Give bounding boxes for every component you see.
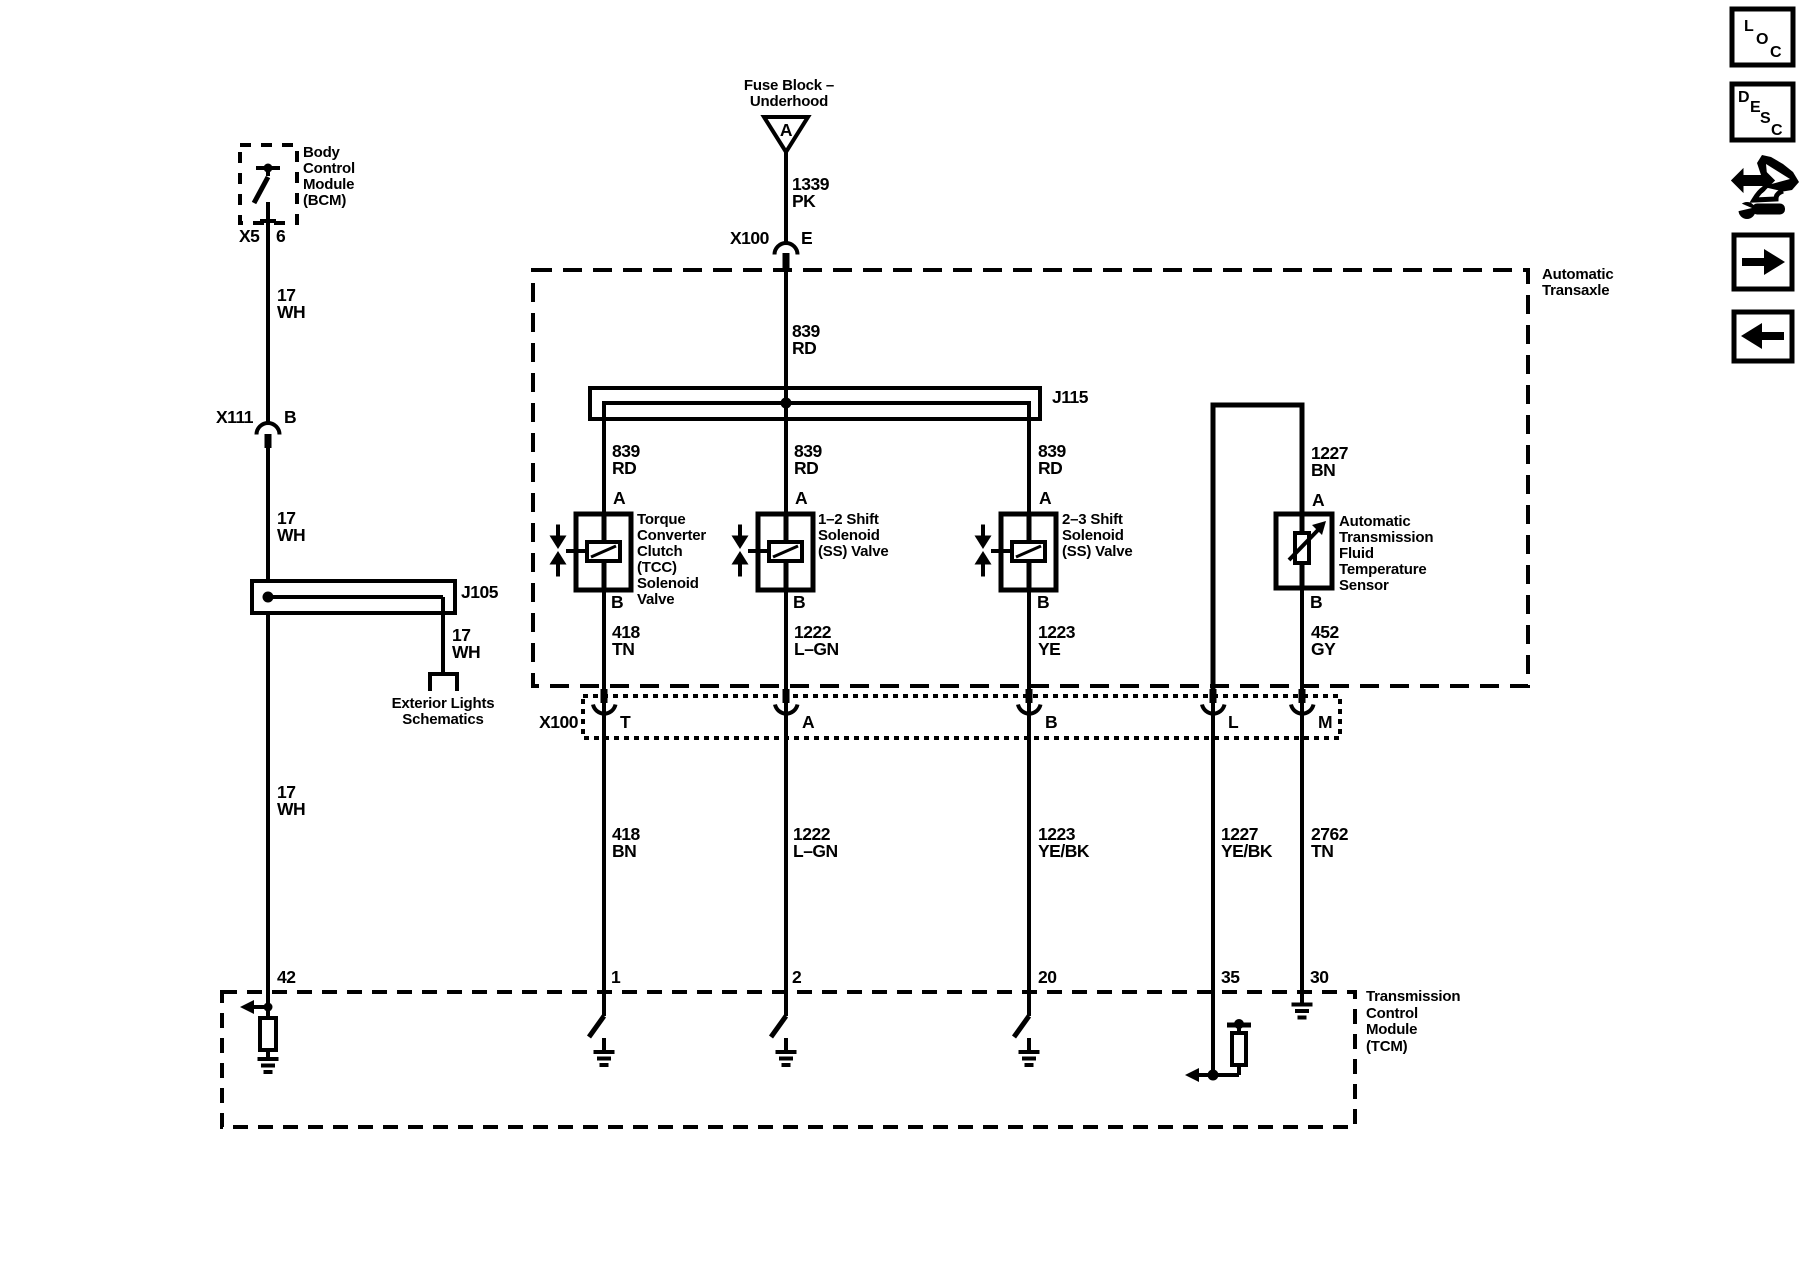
- svg-text:WH: WH: [452, 642, 480, 662]
- wire label 839 RD: [792, 321, 820, 358]
- svg-text:RD: RD: [612, 458, 636, 478]
- wire label 839 RD: [612, 441, 640, 478]
- svg-text:YE/BK: YE/BK: [1221, 841, 1273, 861]
- wire label 1227 BN: [1311, 443, 1348, 480]
- TCM pin 42 signal arrow: [240, 1000, 273, 1014]
- icon schematic navigation (arrows and wrench): [1733, 155, 1799, 219]
- svg-text:Torque: Torque: [637, 511, 686, 528]
- label 1-2 shift solenoid: [818, 511, 889, 560]
- ground TCM pin 30: [1292, 1005, 1313, 1018]
- wire label 1223 YE/BK: [1038, 824, 1090, 861]
- svg-text:J115: J115: [1052, 387, 1089, 407]
- wire triangle to X100 E: [784, 152, 788, 243]
- wire X100 B to TCM pin 20: [1027, 702, 1031, 1016]
- pin labels X5 6: [239, 226, 286, 246]
- ground TCM pin 42: [258, 1059, 279, 1072]
- wire TCC B to X100 T: [602, 590, 606, 689]
- svg-text:J105: J105: [461, 582, 499, 602]
- svg-text:C: C: [1771, 122, 1783, 139]
- icon forward arrow button: [1734, 235, 1792, 289]
- resistor R2 pull-up: [1227, 1019, 1251, 1075]
- wire label 17 WH: [277, 508, 305, 545]
- svg-text:B: B: [1037, 592, 1049, 612]
- wire label 452 GY: [1311, 622, 1339, 659]
- splice J105: [252, 581, 455, 613]
- svg-text:D: D: [1738, 89, 1750, 106]
- ground TCM pin 1: [594, 1052, 615, 1065]
- wire label 839 RD: [1038, 441, 1066, 478]
- wire resistor to ground: [266, 1050, 270, 1059]
- wire J115 to 1-2 shift solenoid: [784, 403, 788, 514]
- connector X100 pin M: [1291, 689, 1314, 714]
- wire label 17 WH: [277, 285, 305, 322]
- Automatic Transaxle dashed box: [533, 270, 1528, 686]
- X100 connector row dashed box: [583, 696, 1340, 738]
- svg-text:Module: Module: [303, 176, 354, 193]
- svg-text:20: 20: [1038, 967, 1057, 987]
- svg-text:Solenoid: Solenoid: [818, 527, 880, 544]
- icon back arrow button: [1734, 312, 1792, 361]
- svg-text:1: 1: [611, 967, 621, 987]
- connector X100 pin E: [775, 243, 798, 269]
- svg-text:PK: PK: [792, 191, 816, 211]
- svg-text:M: M: [1318, 712, 1332, 732]
- svg-text:TN: TN: [1311, 841, 1333, 861]
- svg-text:WH: WH: [277, 799, 305, 819]
- wire J105 branch down: [441, 597, 445, 673]
- svg-text:C: C: [1770, 44, 1782, 61]
- svg-text:Clutch: Clutch: [637, 543, 683, 560]
- connector X100 pin A: [775, 689, 798, 714]
- svg-text:L–GN: L–GN: [794, 639, 839, 659]
- svg-text:YE/BK: YE/BK: [1038, 841, 1090, 861]
- wire X100 E to J115: [784, 269, 788, 403]
- svg-text:L–GN: L–GN: [793, 841, 838, 861]
- Fuse Block - Underhood label: [744, 77, 834, 110]
- svg-text:B: B: [1045, 712, 1057, 732]
- connector X100 pin L: [1202, 689, 1225, 714]
- svg-text:Body: Body: [303, 144, 341, 161]
- svg-text:L: L: [1228, 712, 1239, 732]
- wire label 418 TN: [612, 622, 640, 659]
- svg-text:BN: BN: [612, 841, 636, 861]
- svg-text:WH: WH: [277, 525, 305, 545]
- svg-text:E: E: [801, 228, 812, 248]
- wire X100 A to TCM pin 2: [784, 702, 788, 1016]
- BCM label: [303, 144, 355, 209]
- svg-text:A: A: [795, 488, 808, 508]
- svg-text:X5: X5: [239, 226, 260, 246]
- icon LOC button: [1732, 9, 1793, 65]
- svg-text:2: 2: [792, 967, 802, 987]
- wire label 418 BN: [612, 824, 640, 861]
- svg-text:Schematics: Schematics: [402, 711, 483, 728]
- svg-text:A: A: [1039, 488, 1052, 508]
- wire label 1339 PK: [792, 174, 830, 211]
- svg-text:Control: Control: [303, 160, 355, 177]
- svg-text:Control: Control: [1366, 1005, 1418, 1022]
- wire X100 M to TCM pin 30: [1300, 702, 1304, 1004]
- svg-text:BN: BN: [1311, 460, 1335, 480]
- label ATF temperature sensor: [1339, 513, 1433, 594]
- TCM switch pin 1: [589, 1016, 604, 1051]
- svg-text:35: 35: [1221, 967, 1240, 987]
- svg-text:Solenoid: Solenoid: [637, 575, 699, 592]
- svg-text:(SS) Valve: (SS) Valve: [818, 543, 889, 560]
- TCM switch pin 20: [1014, 1016, 1029, 1051]
- svg-text:42: 42: [277, 967, 296, 987]
- label Exterior Lights Schematics: [392, 695, 495, 728]
- svg-text:YE: YE: [1038, 639, 1060, 659]
- Body Control Module (BCM) dashed box: [240, 145, 297, 223]
- wire BCM to X111: [266, 202, 270, 423]
- svg-text:B: B: [284, 407, 296, 427]
- svg-text:Automatic: Automatic: [1542, 266, 1614, 283]
- label Automatic Transaxle: [1542, 266, 1614, 299]
- svg-text:L: L: [1744, 18, 1754, 35]
- TCC solenoid valve U1: [550, 514, 632, 590]
- svg-text:6: 6: [276, 226, 286, 246]
- ATF temperature sensor RT1: [1276, 514, 1332, 588]
- svg-text:X100: X100: [730, 228, 770, 248]
- svg-text:(SS) Valve: (SS) Valve: [1062, 543, 1133, 560]
- wire J115 to TCC solenoid: [602, 403, 606, 514]
- wire label 1222 L-GN: [793, 824, 838, 861]
- svg-text:A: A: [802, 712, 815, 732]
- Transmission Control Module dashed box: [222, 992, 1355, 1127]
- fuse block triangle connector A: [764, 117, 808, 152]
- svg-text:Module: Module: [1366, 1021, 1417, 1038]
- svg-text:Exterior Lights: Exterior Lights: [392, 695, 495, 712]
- wire X111 to J105: [266, 448, 270, 581]
- wire X100 T to TCM pin 1: [602, 702, 606, 1016]
- TCM pin 35 node and signal arrow: [1185, 1068, 1239, 1082]
- pin B labels of solenoids: [611, 592, 1049, 612]
- svg-text:Automatic: Automatic: [1339, 513, 1411, 530]
- svg-text:Sensor: Sensor: [1339, 577, 1389, 594]
- svg-text:B: B: [611, 592, 623, 612]
- ground TCM pin 2: [776, 1052, 797, 1065]
- svg-text:Fuse Block –: Fuse Block –: [744, 77, 834, 94]
- svg-text:Transmission: Transmission: [1366, 988, 1460, 1005]
- svg-text:(TCC): (TCC): [637, 559, 677, 576]
- connector labels X111 B: [216, 407, 296, 427]
- wire label 1223 YE: [1038, 622, 1076, 659]
- svg-text:RD: RD: [792, 338, 816, 358]
- svg-text:RD: RD: [794, 458, 818, 478]
- connector X111 pin B: [257, 423, 280, 448]
- svg-text:Valve: Valve: [637, 591, 674, 608]
- node bar sensor feed: [1213, 405, 1302, 689]
- svg-text:Transmission: Transmission: [1339, 529, 1433, 546]
- wire label 1227 YE/BK: [1221, 824, 1273, 861]
- pin tick X5/6: [260, 219, 276, 223]
- svg-text:30: 30: [1310, 967, 1329, 987]
- svg-text:GY: GY: [1311, 639, 1336, 659]
- off-page connector to Exterior Lights: [430, 674, 457, 691]
- svg-text:Temperature: Temperature: [1339, 561, 1427, 578]
- connector labels X100 E: [730, 228, 812, 248]
- connector X100 pin B: [1018, 689, 1041, 714]
- svg-text:Converter: Converter: [637, 527, 706, 544]
- svg-text:X100: X100: [539, 712, 579, 732]
- icon DESC button: [1732, 84, 1793, 140]
- svg-text:Solenoid: Solenoid: [1062, 527, 1124, 544]
- label 2-3 shift solenoid: [1062, 511, 1133, 560]
- svg-text:B: B: [1310, 592, 1322, 612]
- 2-3 shift solenoid valve U3: [975, 514, 1057, 590]
- svg-text:S: S: [1760, 110, 1771, 127]
- connector X100 pin T: [593, 689, 616, 714]
- ground TCM pin 20: [1019, 1052, 1040, 1065]
- wire sensor B to X100 M: [1300, 588, 1304, 689]
- wire 1-2 B to X100 A: [784, 590, 788, 689]
- label TCM: [1366, 988, 1460, 1055]
- splice J115: [590, 388, 1040, 419]
- svg-text:B: B: [793, 592, 805, 612]
- wire X100 L to TCM pin 35: [1211, 702, 1215, 1075]
- label TCC solenoid: [637, 511, 706, 608]
- svg-text:(BCM): (BCM): [303, 192, 346, 209]
- 1-2 shift solenoid valve U2: [732, 514, 814, 590]
- resistor R1: [260, 1018, 276, 1050]
- svg-text:T: T: [620, 712, 631, 732]
- svg-text:A: A: [1312, 490, 1325, 510]
- wire 2-3 B to X100 B: [1027, 590, 1031, 689]
- svg-text:(TCM): (TCM): [1366, 1038, 1408, 1055]
- TCM switch pin 2: [771, 1016, 786, 1051]
- svg-text:A: A: [780, 120, 793, 140]
- wire label 2762 TN: [1311, 824, 1349, 861]
- wire J105 to TCM pin 42: [266, 613, 270, 1018]
- svg-text:RD: RD: [1038, 458, 1062, 478]
- svg-text:Transaxle: Transaxle: [1542, 282, 1609, 299]
- svg-text:1–2 Shift: 1–2 Shift: [818, 511, 879, 528]
- wire label 839 RD: [794, 441, 822, 478]
- wire label 17 WH: [277, 782, 305, 819]
- BCM internal switch: [254, 164, 280, 204]
- svg-text:2–3 Shift: 2–3 Shift: [1062, 511, 1123, 528]
- wire label 1222 L-GN: [794, 622, 839, 659]
- svg-text:O: O: [1756, 31, 1768, 48]
- svg-text:Fluid: Fluid: [1339, 545, 1374, 562]
- svg-text:A: A: [613, 488, 626, 508]
- wire label 17 WH: [452, 625, 480, 662]
- svg-text:X111: X111: [216, 407, 254, 427]
- wire J115 to 2-3 shift solenoid: [1027, 403, 1031, 514]
- svg-text:WH: WH: [277, 302, 305, 322]
- svg-text:TN: TN: [612, 639, 634, 659]
- svg-text:Underhood: Underhood: [750, 93, 828, 110]
